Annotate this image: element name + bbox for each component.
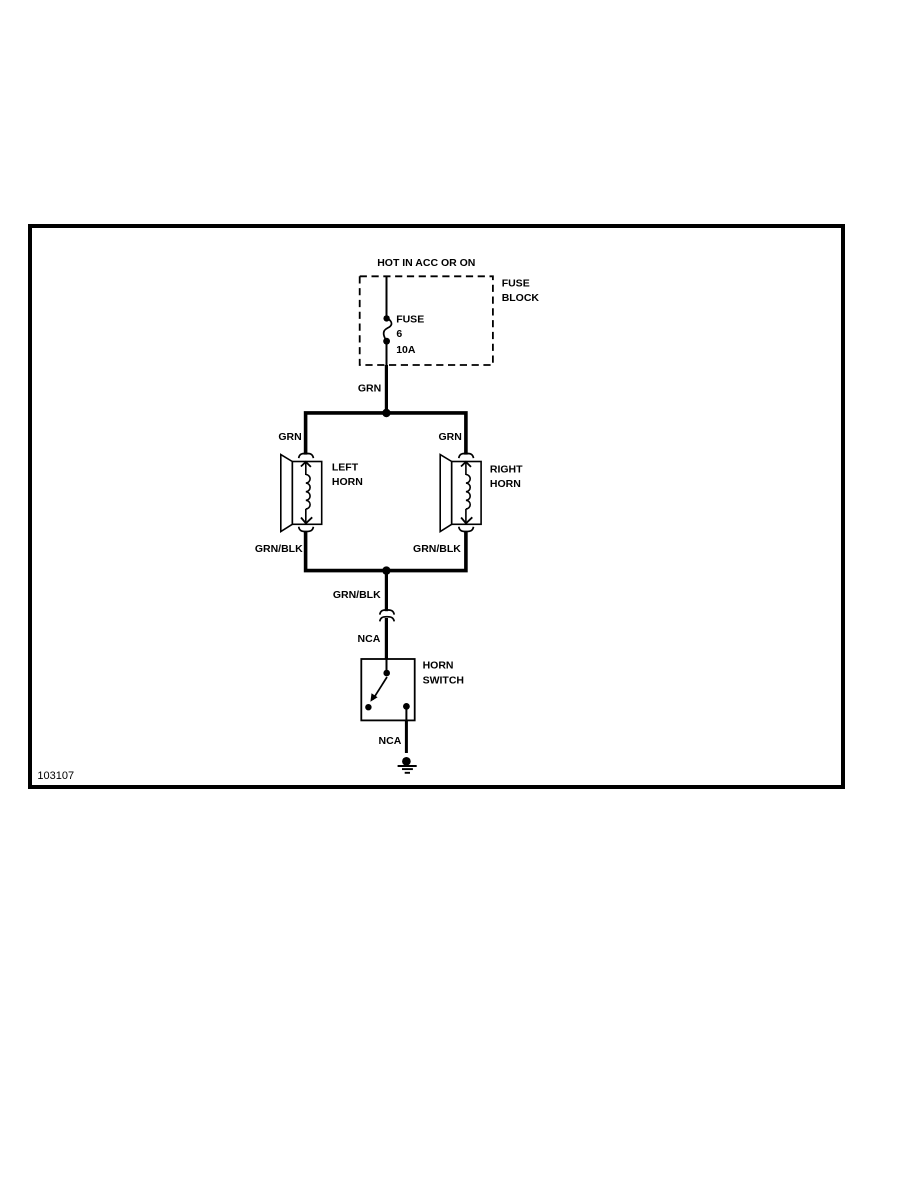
svg-text:6: 6 xyxy=(396,328,402,340)
fuse block (dashed box) xyxy=(360,276,493,365)
node: bottom junction xyxy=(382,566,390,574)
svg-text:SWITCH: SWITCH xyxy=(423,674,464,686)
svg-text:103107: 103107 xyxy=(37,770,74,782)
svg-text:GRN: GRN xyxy=(358,383,381,395)
svg-text:FUSE: FUSE xyxy=(396,313,424,325)
wire NCA: connector to horn switch xyxy=(385,618,388,659)
wire: top bus with branch drops xyxy=(306,413,466,455)
wire GRN/BLK: junction to connector xyxy=(385,571,388,612)
svg-text:HOT IN ACC OR ON: HOT IN ACC OR ON xyxy=(377,257,475,269)
svg-text:HORN: HORN xyxy=(490,478,521,490)
wire GRN: fuse block to top junction xyxy=(385,365,388,412)
connector: left horn top xyxy=(299,453,314,458)
svg-text:HORN: HORN xyxy=(332,476,363,488)
svg-text:GRN/BLK: GRN/BLK xyxy=(333,589,381,601)
connector: right horn bottom xyxy=(459,527,474,532)
wire: fuse output inside block xyxy=(386,344,388,367)
svg-text:GRN/BLK: GRN/BLK xyxy=(255,543,303,555)
svg-text:GRN: GRN xyxy=(438,431,461,443)
svg-text:10A: 10A xyxy=(396,344,416,356)
svg-text:BLOCK: BLOCK xyxy=(502,292,540,304)
wire: bottom bus with branch drops xyxy=(306,531,466,570)
svg-text:LEFT: LEFT xyxy=(332,462,359,474)
horn switch internals xyxy=(365,659,410,720)
connector: right horn top xyxy=(459,453,474,458)
left horn xyxy=(281,455,322,532)
svg-text:NCA: NCA xyxy=(358,633,381,645)
ground xyxy=(398,757,417,773)
fuse 6 (element) xyxy=(383,315,391,344)
svg-text:HORN: HORN xyxy=(423,659,454,671)
horn switch box xyxy=(361,659,414,720)
inline connector xyxy=(380,610,394,622)
svg-text:FUSE: FUSE xyxy=(502,278,530,290)
svg-text:GRN/BLK: GRN/BLK xyxy=(413,543,461,555)
svg-text:RIGHT: RIGHT xyxy=(490,463,523,475)
svg-text:NCA: NCA xyxy=(379,735,402,747)
node: top junction xyxy=(382,409,390,417)
wire: feed into fuse xyxy=(386,277,388,317)
right horn xyxy=(440,455,481,532)
connector: left horn bottom xyxy=(299,527,314,532)
wire: switch to ground xyxy=(405,720,408,753)
svg-text:GRN: GRN xyxy=(278,431,301,443)
